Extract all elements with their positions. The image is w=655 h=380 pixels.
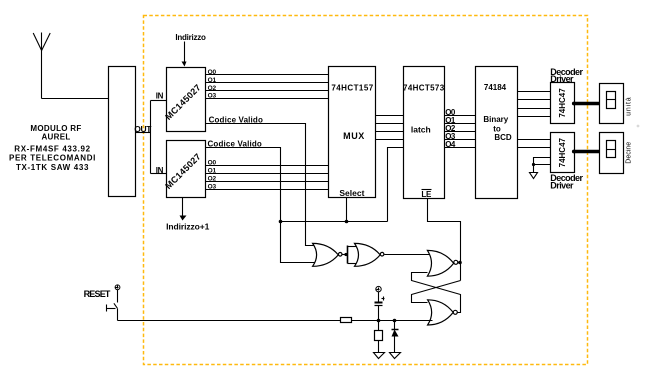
mux U3 74HCT157 — [329, 67, 376, 198]
ground G5 — [374, 353, 385, 359]
wire U2 O0 — [206, 165, 329, 167]
wire U2 O1 — [206, 173, 329, 175]
wire cross coupling G4 out to G3 input — [412, 273, 461, 313]
svg-text:O2: O2 — [208, 85, 217, 92]
wire U7 tied pins — [534, 158, 551, 165]
wire U1 O1 — [206, 82, 329, 84]
wire U3-U4 D3 — [376, 139, 404, 141]
junction dot G3 out — [458, 261, 462, 265]
svg-text:Codice Valido: Codice Valido — [209, 116, 263, 125]
wire LE net to SR latch — [428, 199, 461, 281]
wire reset line to G4 — [352, 320, 433, 322]
wire to ground U7 — [533, 165, 535, 173]
svg-text:O4: O4 — [445, 140, 456, 149]
svg-text:Codice Valido: Codice Valido — [208, 140, 262, 149]
svg-text:LE: LE — [421, 190, 432, 199]
svg-text:MUX: MUX — [343, 131, 365, 141]
wire U4 O4 — [445, 147, 476, 149]
labels U1 O0-O3 — [208, 69, 217, 100]
svg-text:RESET: RESET — [84, 289, 111, 299]
converter U5 74184 Binary to BCD — [476, 67, 518, 199]
decoder U2 MC145027 — [167, 141, 206, 198]
svg-text:Select: Select — [339, 188, 364, 198]
wire U1 O0 — [206, 74, 329, 76]
svg-text:Binary: Binary — [483, 115, 508, 124]
svg-text:unità: unità — [626, 96, 633, 115]
wire U3-U4 D1 — [376, 123, 404, 125]
sr nor gate G3 top — [427, 250, 453, 276]
wire C1 to node — [378, 306, 380, 320]
wire U5-U6 B — [518, 99, 551, 101]
RF module box AUREL — [109, 67, 136, 197]
junction dot U7 ground — [532, 163, 535, 166]
svg-text:74HCT157: 74HCT157 — [331, 84, 373, 93]
wire U2 O2 — [206, 181, 329, 183]
svg-text:O0: O0 — [208, 160, 217, 167]
wire D1 to ground — [394, 337, 396, 353]
wire G2 input bar — [347, 246, 349, 264]
decoder driver U7 74HC47 — [551, 133, 575, 173]
wire IN split vertical — [150, 101, 152, 174]
svg-text:Decine: Decine — [626, 142, 633, 164]
wire Select pin down — [346, 198, 348, 222]
decoder U1 MC145027 — [167, 68, 206, 132]
svg-text:Driver: Driver — [550, 180, 574, 190]
wire U5-U6 C — [518, 108, 551, 110]
svg-text:O3: O3 — [208, 93, 217, 100]
svg-text:latch: latch — [411, 124, 431, 134]
svg-text:Indirizzo: Indirizzo — [175, 33, 206, 42]
wire U5-U7 A — [518, 139, 551, 141]
wire IN pin U1 — [151, 100, 167, 102]
junction dot bus1 — [572, 102, 576, 106]
latch U4 74HCT573 — [404, 67, 445, 199]
resistor R2 — [375, 331, 383, 341]
junction dot diode — [393, 319, 397, 323]
wire U4 D4 input from net — [388, 148, 404, 222]
wire U3-U4 D0 — [376, 115, 404, 117]
svg-text:O3: O3 — [208, 183, 217, 190]
svg-text:Driver: Driver — [550, 74, 574, 84]
wire U4 O1 — [445, 123, 476, 125]
wire Codice Valido U2 — [206, 148, 317, 263]
wire node to D1 — [394, 320, 396, 330]
wire node to R2 — [378, 320, 380, 331]
junction dot bus2 — [572, 150, 576, 154]
wire OUT from module — [136, 132, 151, 134]
module text MODULO RF AUREL — [30, 124, 81, 141]
svg-text:O2: O2 — [208, 175, 217, 182]
wire R2 to ground — [378, 341, 380, 353]
wire reset line — [118, 320, 341, 322]
junction dot G2 input — [344, 253, 347, 256]
nor gate G1 — [313, 243, 339, 266]
ground U7 — [530, 173, 538, 179]
wire U5-U7 B — [518, 147, 551, 149]
svg-text:74HC47: 74HC47 — [558, 88, 567, 118]
svg-text:O1: O1 — [208, 77, 217, 84]
svg-text:RX-FM4SF 433.92: RX-FM4SF 433.92 — [14, 145, 90, 154]
nor gate G2 — [355, 243, 381, 266]
svg-text:PER TELECOMANDI: PER TELECOMANDI — [9, 154, 96, 163]
display DS1 — [600, 84, 624, 124]
wire U4 O3 — [445, 139, 476, 141]
svg-text:74HC47: 74HC47 — [558, 137, 567, 167]
wire U1 O2 — [206, 90, 329, 92]
wire U3-U4 D2 — [376, 131, 404, 133]
capacitor C1 — [375, 302, 383, 304]
svg-text:IN: IN — [156, 166, 164, 175]
svg-text:O0: O0 — [208, 69, 217, 76]
resistor R1 — [341, 318, 352, 323]
bus U6 to display DS1 — [575, 102, 600, 105]
svg-text:TX-1TK SAW 433: TX-1TK SAW 433 — [16, 163, 89, 172]
wire G2 out to SR — [385, 254, 430, 256]
svg-text:74HCT573: 74HCT573 — [403, 84, 445, 93]
display DS2 — [600, 133, 624, 174]
wire Codice Valido U1 — [206, 124, 317, 246]
power symbol P2 — [376, 286, 381, 291]
junction dot net221 select — [345, 220, 349, 224]
wire G3 out — [458, 262, 461, 264]
bus U7 to display DS2 — [575, 150, 600, 153]
ground G6 — [390, 353, 401, 359]
power symbol P1 — [115, 285, 120, 290]
svg-text:O1: O1 — [208, 168, 217, 175]
svg-text:BCD: BCD — [494, 133, 512, 142]
artifact dot — [637, 125, 640, 128]
labels U4 O0-O4 — [445, 108, 456, 149]
svg-text:IN: IN — [156, 92, 164, 101]
svg-text:AUREL: AUREL — [41, 133, 70, 142]
wire net 221 horizontal — [281, 221, 388, 223]
labels U2 O0-O3 — [208, 160, 217, 191]
wire U1 O3 — [206, 98, 329, 100]
wire IN pin U2 — [151, 173, 167, 175]
diode D1 — [392, 329, 399, 331]
decoder driver U6 74HC47 — [551, 83, 575, 124]
wire U5-U6 A — [518, 91, 551, 93]
svg-text:OUT: OUT — [134, 124, 152, 134]
wire cross coupling G3 out to G4 input — [412, 281, 461, 303]
sr nor gate G4 bottom — [428, 300, 454, 325]
junction dot net221 left — [279, 220, 283, 224]
arrow Indirizzo+1 out of U2 — [182, 198, 184, 217]
label plus C1 — [382, 298, 385, 300]
wire U4 O2 — [445, 131, 476, 133]
dashed board boundary — [144, 16, 588, 365]
wire G1 out to G2 bar — [343, 254, 348, 256]
antenna ANT1 — [33, 33, 108, 99]
arrow Indirizzo into U1 — [184, 42, 186, 63]
junction dot RC — [377, 319, 381, 323]
wire U5-U6 D — [518, 116, 551, 118]
svg-text:Indirizzo+1: Indirizzo+1 — [166, 221, 209, 231]
wire U2 O3 — [206, 189, 329, 191]
wire U4 O0 — [445, 115, 476, 117]
wire P2 to C1 — [378, 292, 380, 302]
switch S1 pushbutton — [117, 290, 119, 303]
svg-text:74184: 74184 — [484, 83, 507, 92]
